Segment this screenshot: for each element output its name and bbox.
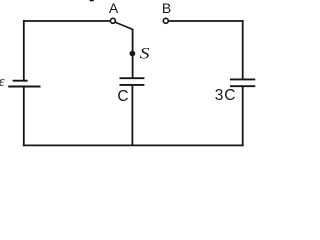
node B label — [162, 0, 171, 16]
wire top-right horizontal — [168, 20, 243, 22]
svg-text:C: C — [224, 87, 235, 104]
switch S lever (blade from A to pivot wire) — [115, 22, 133, 29]
wire right vertical lower — [242, 86, 244, 146]
wire left vertical upper — [23, 20, 25, 81]
node A label — [109, 0, 119, 16]
capacitor C bottom plate — [120, 84, 145, 86]
battery value label ε — [0, 74, 5, 90]
cropped mark at top edge — [90, 0, 94, 1]
capacitor 3C bottom plate — [230, 85, 255, 87]
switch terminal A (open circle) — [110, 18, 115, 23]
wire top-left horizontal — [23, 20, 111, 22]
switch terminal B (open circle) — [163, 18, 168, 23]
capacitor 3C top plate — [230, 78, 255, 80]
svg-text:B: B — [162, 0, 171, 16]
svg-text:ε: ε — [0, 74, 5, 90]
wire capacitor C bottom lead — [131, 85, 133, 145]
wire right vertical upper — [242, 20, 244, 79]
wire bottom horizontal — [23, 144, 244, 146]
wire left vertical lower — [23, 87, 25, 147]
capacitor C top plate — [120, 77, 145, 79]
capacitor value label C — [117, 88, 128, 105]
battery cell ε bottom plate (long) — [8, 86, 40, 88]
svg-text:A: A — [109, 0, 119, 16]
switch pivot node S (junction dot) — [130, 51, 136, 57]
svg-text:S: S — [140, 46, 150, 63]
svg-text:C: C — [117, 88, 128, 105]
wire switch pole vertical — [132, 29, 134, 79]
capacitor value label 3 C — [215, 87, 236, 104]
battery cell ε top plate (short) — [13, 80, 28, 82]
switch label S — [140, 46, 150, 63]
svg-text:3: 3 — [215, 87, 224, 104]
